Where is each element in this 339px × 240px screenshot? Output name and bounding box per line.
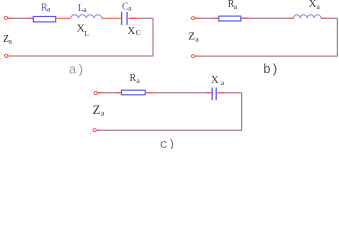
svg-text:X: X xyxy=(77,22,85,34)
svg-text:Z: Z xyxy=(188,31,195,43)
svg-text:X: X xyxy=(211,75,219,86)
svg-text:C: C xyxy=(136,28,141,37)
svg-text:b): b) xyxy=(263,62,279,77)
svg-text:L: L xyxy=(84,29,89,38)
svg-text:c): c) xyxy=(160,137,176,149)
svg-text:X: X xyxy=(127,25,135,37)
svg-text:Z: Z xyxy=(93,103,101,117)
svg-text:a): a) xyxy=(69,62,85,77)
